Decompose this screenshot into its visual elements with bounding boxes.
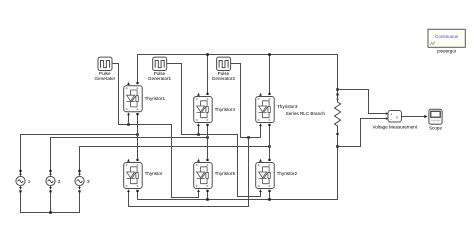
node: junction RLC bottom / VM - tap (336, 145, 339, 148)
svg-text:v: v (396, 116, 398, 120)
thyristor U2 Thyristor2 (256, 163, 275, 189)
wire: Pulse Generator output to Thyristor1 gate and Thyristor5 gate (112, 64, 199, 198)
node: junction gate line at Thyristor1 gate (127, 123, 130, 126)
ac voltage source V2 (46, 170, 55, 193)
svg-text:+: + (390, 113, 392, 117)
svg-text:Scope: Scope (429, 125, 442, 130)
resistor R1 Series RLC Branch (334, 93, 340, 135)
node: junction neutral bus at source 2 (49, 211, 52, 214)
wire: junction to RLC top port (337, 90, 339, 93)
thyristor U0 Thyristor (124, 163, 143, 189)
voltmeter U7 Voltage Measurement (386, 111, 402, 123)
wire: Voltage Measurement output to Scope with arrowhead (402, 116, 426, 118)
wire: neutral bus joining bottoms of the three AC sources (21, 193, 80, 213)
pin: Thyristor2 g gate arrow (259, 189, 262, 192)
wire: Thyristor1 anode down to Thyristor cathode (column 1) (137, 114, 139, 159)
pin: Thyristor4 m output arrow (unconnected) (197, 93, 200, 96)
wire: DC- return bus from RLC bottom to Thyristor anode (138, 135, 338, 200)
svg-text:Voltage Measurement: Voltage Measurement (372, 124, 417, 129)
pulse generator Pulse Generator (98, 57, 112, 70)
svg-text:Thyristor5: Thyristor5 (215, 171, 236, 176)
node: junction on DC+ bus above Thyristor4 (206, 53, 209, 56)
pin: Thyristor4 g gate arrow (197, 123, 200, 126)
pin: Thyristor2 k cathode port (268, 159, 270, 161)
pin: Thyristor g gate arrow (127, 189, 130, 192)
node: junction DC+ bus / RLC top / voltage measurement tap (336, 88, 339, 91)
ac voltage source V3 (75, 170, 84, 193)
svg-text:Generator1: Generator1 (148, 76, 172, 81)
thyristor U3 Thyristor3 (256, 97, 275, 123)
node: junction gate line split to Thyristor gate (247, 136, 250, 139)
pin: Thyristor5 k cathode port (206, 159, 208, 161)
svg-text:2: 2 (58, 179, 61, 184)
thyristor U1 Thyristor1 (124, 86, 143, 112)
pin: Thyristor k cathode port (136, 159, 138, 161)
thyristor U4 Thyristor4 (194, 97, 213, 123)
wire: Thyristor4 anode down to Thyristor5 cathode (column 2) (207, 125, 209, 159)
node: junction phase2 on anode column 2 (206, 136, 209, 139)
node: junction on DC+ bus above Thyristor3 (268, 53, 271, 56)
svg-text:powergui: powergui (437, 48, 456, 53)
wire: Thyristor3 cathode up to DC+ bus (269, 55, 271, 94)
pulse generator Pulse Generator1 (153, 57, 167, 70)
pin: Thyristor1 m output arrow (unconnected) (127, 82, 130, 85)
wire: Pulse Generator1 output to Thyristor4 gate and Thyristor2 gate (167, 64, 261, 197)
pin: Thyristor1 g gate arrow (127, 112, 130, 115)
wire: Thyristor5 anode down to DC- bus (207, 192, 209, 200)
pin: Thyristor3 m output arrow (unconnected) (259, 93, 262, 96)
pin: Thyristor3 k cathode port (268, 93, 270, 95)
pin: Thyristor5 g gate arrow (197, 189, 200, 192)
pin: Thyristor a anode port (136, 190, 138, 192)
svg-text:Generator2: Generator2 (212, 76, 236, 81)
wire: VM - tap to Voltage Measurement - input (338, 119, 386, 147)
svg-text:Continuous: Continuous (435, 34, 459, 39)
pulse generator Pulse Generator2 (217, 57, 231, 70)
node: junction phase3 on anode column 3 (268, 145, 271, 148)
svg-text:Thyristor: Thyristor (145, 171, 163, 176)
wire: gate branch up to Thyristor1 gate (128, 115, 130, 125)
node: junction DC- bus at Thyristor2 (268, 198, 271, 201)
pin: Thyristor2 m output arrow (unconnected) (259, 159, 262, 162)
powergui block (428, 29, 465, 47)
thyristor U5 Thyristor5 (194, 163, 213, 189)
svg-text:Thyristor3: Thyristor3 (277, 104, 298, 109)
pin: Thyristor m output arrow (unconnected) (127, 159, 130, 162)
wire: phase 2 from source 2 up and right to Thyristor4/Thyristor5 midpoint (51, 138, 208, 171)
pin: Thyristor3 g gate arrow (259, 123, 262, 126)
pin: Thyristor1 k cathode port (136, 82, 138, 84)
wire: Thyristor3 anode down to Thyristor2 cathode (column 3) (269, 125, 271, 159)
pin: Thyristor5 a anode port (206, 190, 208, 192)
pin: Thyristor1 a anode port (136, 113, 138, 115)
wire: gate branch up to Thyristor4 gate (198, 126, 200, 135)
pin: Thyristor2 a anode port (268, 190, 270, 192)
wire: phase 1 from source 1 up and right to Thyristor1/Thyristor midpoint (21, 135, 138, 171)
svg-text:Thyristor2: Thyristor2 (277, 171, 298, 176)
pin: Thyristor5 m output arrow (unconnected) (197, 159, 200, 162)
svg-text:Thyristor4: Thyristor4 (215, 107, 236, 112)
svg-text:1: 1 (28, 179, 31, 184)
pin: Thyristor4 a anode port (206, 124, 208, 126)
node: junction phase1 on anode column 1 (136, 133, 139, 136)
wire: junction to Voltage Measurement + input (338, 90, 386, 114)
svg-text:Series RLC Branch: Series RLC Branch (286, 111, 326, 116)
node: junction gate line at Thyristor4 gate (197, 133, 200, 136)
wire: Pulse Generator2 output to Thyristor3 gate and Thyristor gate (231, 64, 261, 138)
wire: Thyristor2 anode down to DC- bus (269, 192, 271, 200)
wire: phase 3 from source 3 up and right to Thyristor3/Thyristor2 midpoint (80, 147, 270, 171)
wire: gate branch down and left to Thyristor gate (129, 138, 249, 207)
scope U8 Scope (429, 109, 442, 124)
pin: Thyristor3 a anode port (268, 124, 270, 126)
svg-text:3: 3 (87, 179, 90, 184)
pin: Thyristor4 k cathode port (206, 93, 208, 95)
node: junction DC- bus at Thyristor5 (206, 198, 209, 201)
svg-text:Generator: Generator (94, 76, 115, 81)
svg-text:Thyristor1: Thyristor1 (145, 96, 166, 101)
wire: DC+ top bus from Thyristor1 cathode across to Series RLC Branch (138, 55, 338, 89)
wire: Thyristor4 cathode up to DC+ bus (207, 55, 209, 94)
ac voltage source V1 (16, 170, 25, 193)
